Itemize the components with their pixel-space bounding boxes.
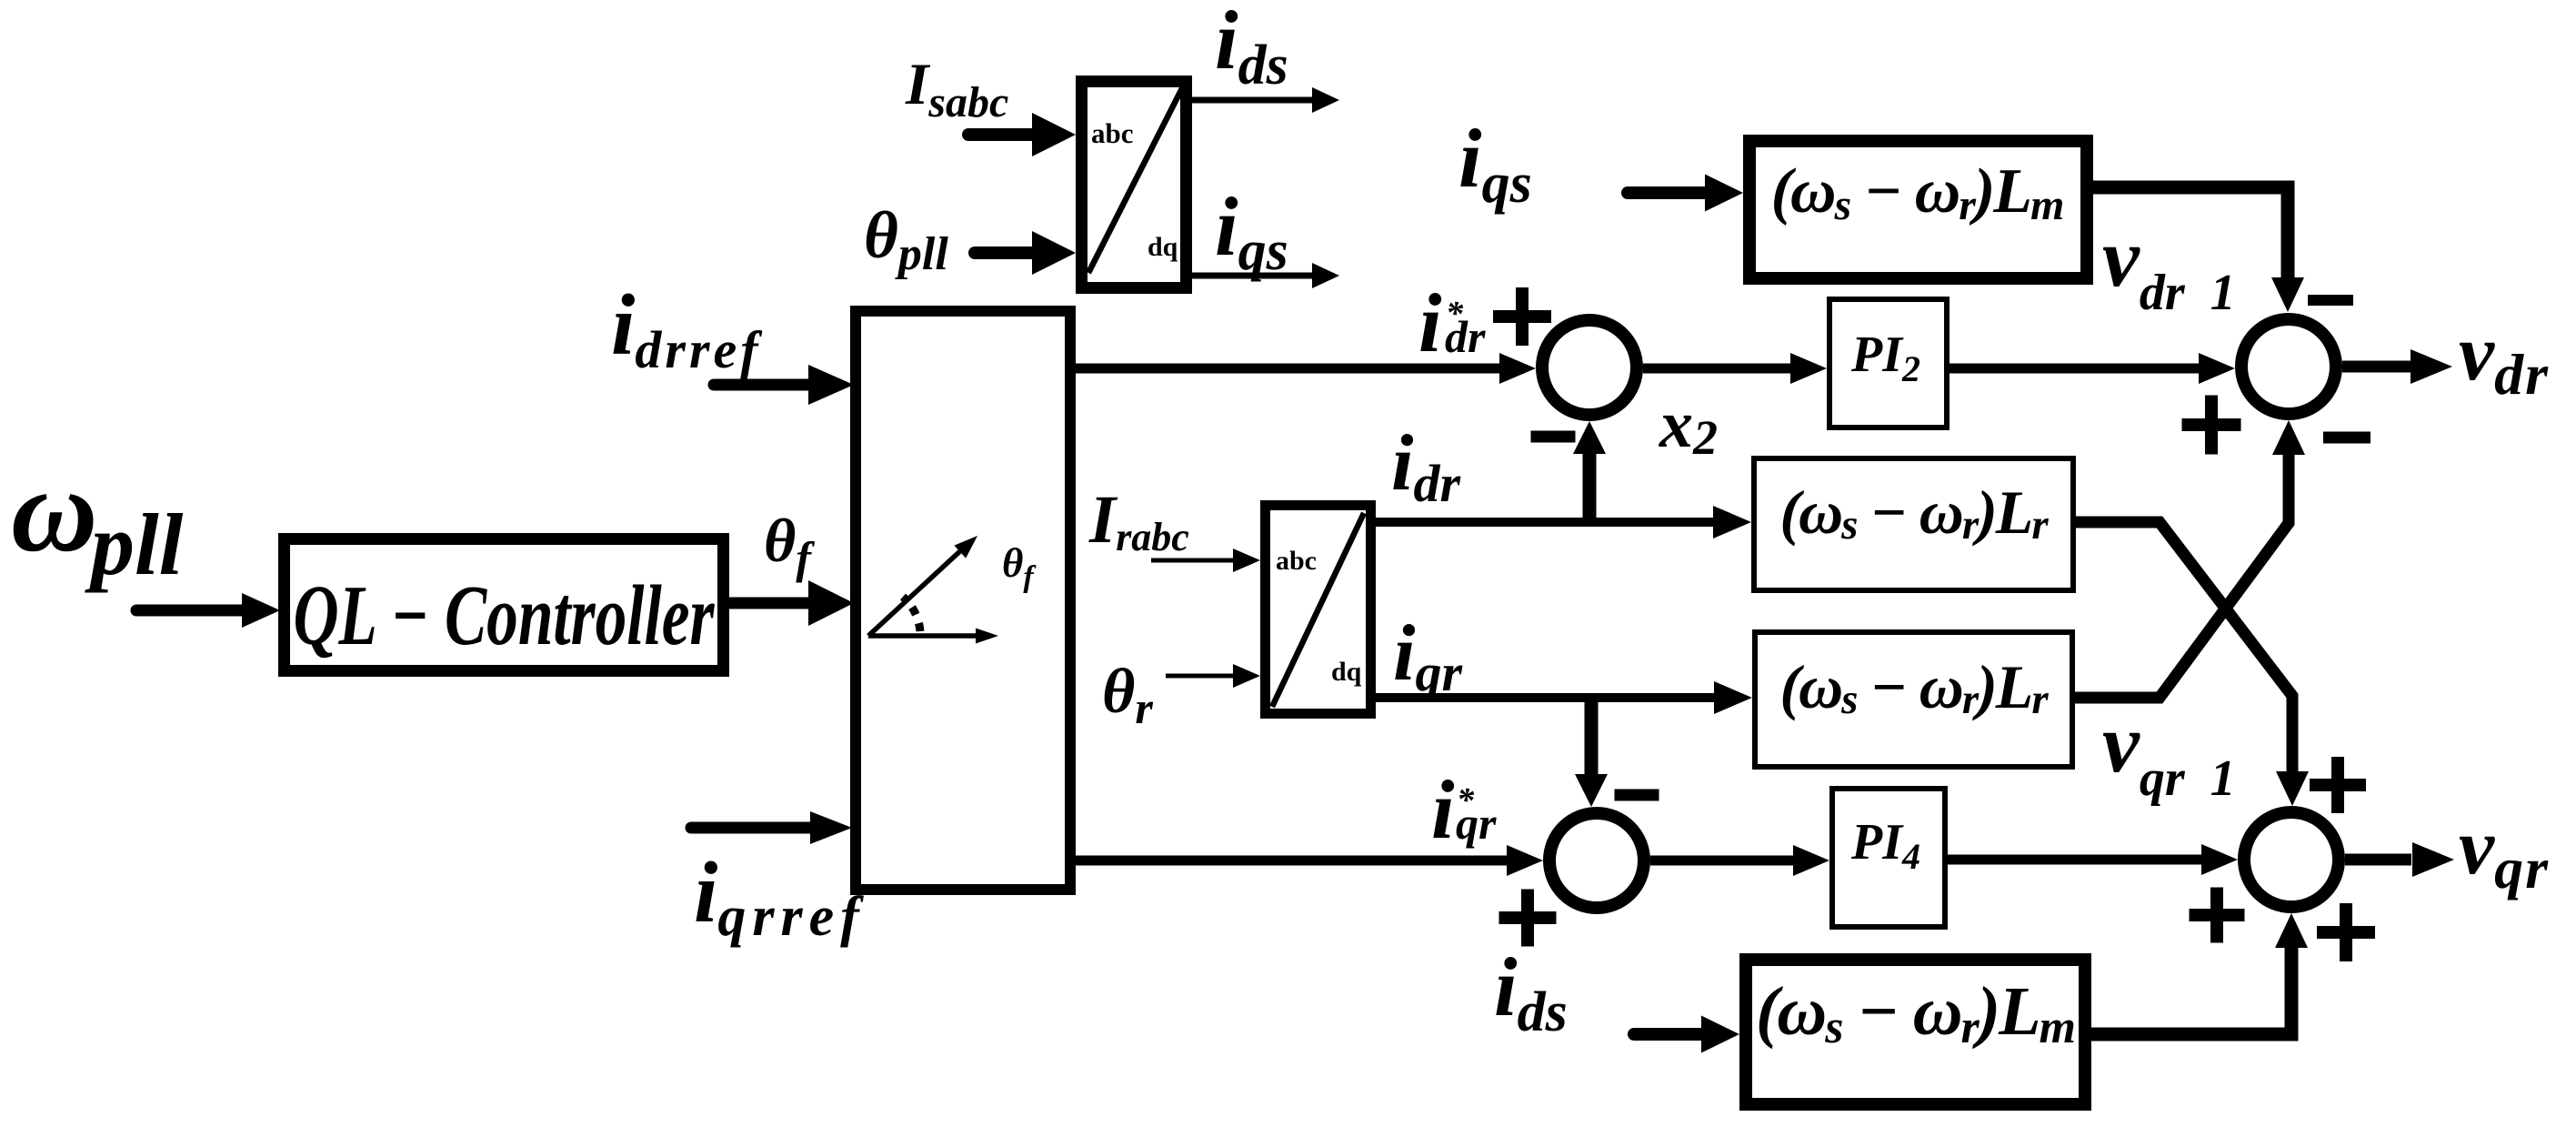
svg-text:QL − Controller: QL − Controller xyxy=(294,569,716,663)
block abc-dq transform rotor xyxy=(1266,506,1371,714)
wire i_qs input arrow to Lm upper xyxy=(1628,175,1743,212)
svg-text:pll: pll xyxy=(85,496,184,593)
svg-text:(ωs − ωr)Lm: (ωs − ωr)Lm xyxy=(1771,156,2063,229)
block rotating frame transform xyxy=(856,311,1070,890)
wire i_ds input arrow to Lm lower xyxy=(1634,1016,1739,1053)
wire theta_f QL to frame block xyxy=(729,580,854,626)
plus sign S2 input xyxy=(1499,890,1557,947)
wire I_rabc input arrow xyxy=(1151,548,1260,572)
svg-text:abc: abc xyxy=(1276,546,1317,576)
wire Lm lower to S4 bottom xyxy=(2091,913,2308,1034)
wire Lr2 cross up to S3 bottom xyxy=(2075,420,2305,698)
wire i_dr from rotor block to Lr1 xyxy=(1376,506,1751,538)
block PI2 controller xyxy=(1829,299,1947,428)
wire frame block to S2 xyxy=(1076,845,1543,876)
svg-text:ω: ω xyxy=(11,443,97,577)
wire omega_pll input arrow xyxy=(136,593,280,628)
wire frame block to S1 xyxy=(1076,353,1536,384)
summing junction S1 (d-axis error) xyxy=(1542,320,1637,415)
svg-text:i: i xyxy=(1418,277,1442,369)
svg-text:dq: dq xyxy=(1331,657,1362,687)
wire theta_pll input arrow xyxy=(975,231,1076,275)
wire i_qrref input arrow xyxy=(691,811,852,844)
svg-text:(ωs − ωr)Lr: (ωs − ωr)Lr xyxy=(1779,652,2049,723)
summing junction S3 (v_dr output) xyxy=(2241,319,2336,414)
svg-text:qr: qr xyxy=(1456,798,1497,849)
minus sign S2 feedback xyxy=(1615,790,1659,801)
minus sign S1 feedback xyxy=(1531,431,1576,443)
wire Lr1 cross down to S4 top xyxy=(2076,522,2309,806)
wire PI2 to S3 xyxy=(1950,353,2235,384)
wire angle sketch dashed arc xyxy=(903,597,920,631)
summing junction S2 (q-axis error) xyxy=(1549,813,1644,908)
summing junction S4 (v_qr output) xyxy=(2244,812,2339,907)
wire i_qs output arrow xyxy=(1192,263,1339,288)
wire i_drref input arrow xyxy=(714,365,854,405)
svg-text:(ωs − ωr)Lm: (ωs − ωr)Lm xyxy=(1756,973,2074,1053)
block slip gain Lm lower xyxy=(1746,960,2085,1104)
wire i_ds output arrow xyxy=(1192,87,1339,113)
svg-text:dq: dq xyxy=(1148,232,1178,262)
wire S3 to v_dr output xyxy=(2342,349,2452,384)
svg-text:dr: dr xyxy=(1445,311,1486,362)
svg-text:abc: abc xyxy=(1091,117,1134,149)
wire i_dr branch up to S1 xyxy=(1573,421,1606,522)
block slip gain Lr lower xyxy=(1755,632,2072,767)
wire i_qr from rotor block to Lr2 xyxy=(1376,681,1752,714)
svg-text:(ωs − ωr)Lr: (ωs − ωr)Lr xyxy=(1779,478,2049,548)
plus sign S4 top xyxy=(2310,757,2366,813)
plus sign S4 left xyxy=(2190,888,2245,943)
block slip gain Lm upper xyxy=(1749,141,2087,278)
wire I_sabc input arrow xyxy=(968,113,1076,156)
wire S1 to PI2 xyxy=(1643,353,1827,384)
wire angle sketch theta_f vector xyxy=(868,536,977,636)
minus sign S3 top xyxy=(2308,295,2353,306)
wire angle sketch horizontal axis xyxy=(868,629,998,644)
svg-text:i: i xyxy=(1431,763,1455,856)
wire Lm upper to S3 top xyxy=(2093,187,2304,312)
wire S2 to PI4 xyxy=(1650,845,1829,876)
block abc-dq transform stator xyxy=(1082,82,1187,288)
wire i_qr branch down to S2 xyxy=(1575,698,1608,807)
plus sign S1 input xyxy=(1493,287,1551,346)
wire abc-dq2 diagonal xyxy=(1272,513,1364,707)
wire PI4 to S4 xyxy=(1948,844,2238,875)
block QL-Controller xyxy=(285,539,724,671)
wire theta_r input arrow xyxy=(1166,664,1260,688)
block PI4 controller xyxy=(1832,789,1945,927)
minus sign S3 bottom xyxy=(2323,432,2371,444)
wire abc-dq1 diagonal xyxy=(1088,88,1182,273)
plus sign S4 bottom xyxy=(2317,903,2375,961)
wire S4 to v_qr output xyxy=(2345,842,2454,877)
block slip gain Lr upper xyxy=(1754,458,2073,590)
plus sign S3 left xyxy=(2182,396,2241,455)
